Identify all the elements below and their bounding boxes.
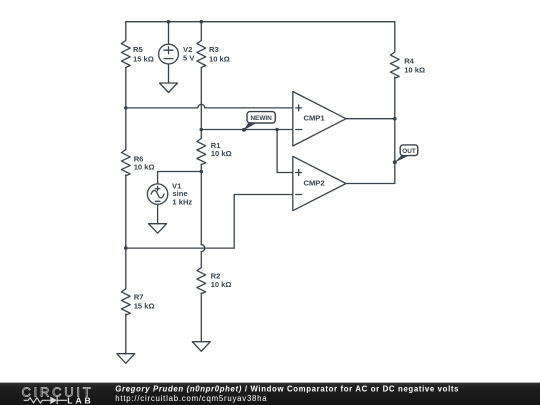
node OUT flag <box>393 145 418 164</box>
junction V1 R1 <box>200 170 204 174</box>
ground G1 under V2 <box>160 83 178 93</box>
svg-text:10 kΩ: 10 kΩ <box>209 54 230 63</box>
op-amp CMP1 <box>293 92 346 147</box>
svg-text:15 kΩ: 15 kΩ <box>134 302 155 311</box>
wire left rail upper <box>125 22 127 41</box>
svg-text:1 kHz: 1 kHz <box>172 197 192 206</box>
junction left rail noninverting <box>124 106 128 110</box>
svg-text:15 kΩ: 15 kΩ <box>133 54 154 63</box>
svg-text:R5: R5 <box>133 45 143 54</box>
voltage source V2 <box>159 44 179 64</box>
wire inverting input CMP1 <box>201 129 292 131</box>
wire V2 bottom lead <box>168 64 170 83</box>
footer text <box>115 384 459 403</box>
junction middle rail inverting <box>200 128 204 132</box>
junction R3 top <box>200 20 204 24</box>
wire left rail mid2 <box>125 175 127 288</box>
svg-text:10 kΩ: 10 kΩ <box>211 149 232 158</box>
op-amp CMP2 <box>293 156 346 210</box>
node NEWIN flag <box>242 112 275 132</box>
footer bar <box>0 383 540 405</box>
svg-text:R4: R4 <box>404 57 414 66</box>
svg-text:5 V: 5 V <box>183 54 195 63</box>
svg-text:LAB: LAB <box>67 396 93 405</box>
ground G4 under R7 <box>117 354 135 364</box>
wire hop over bottom wire <box>201 245 205 252</box>
svg-text:10 kΩ: 10 kΩ <box>404 65 425 74</box>
wire V2 top lead <box>168 22 170 45</box>
wire middle rail R3 to R1 <box>200 68 202 139</box>
wire CMP2 inverting to bottom <box>234 195 293 249</box>
wire left rail mid1 <box>125 68 127 150</box>
wire hop to R2 <box>200 252 202 268</box>
svg-text:http://circuitlab.com/cqm5ruya: http://circuitlab.com/cqm5ruyav38ha <box>115 394 267 403</box>
resistor R6 <box>121 150 130 176</box>
svg-text:10 kΩ: 10 kΩ <box>134 163 155 172</box>
svg-text:CMP2: CMP2 <box>304 178 325 187</box>
resistor R7 <box>121 289 130 315</box>
wire noninverting input CMP1 with hop <box>126 104 293 107</box>
resistor R1 <box>197 138 206 164</box>
logo CircuitLab <box>22 384 94 405</box>
svg-text:10 kΩ: 10 kΩ <box>211 280 232 289</box>
wire V1 top lead <box>158 172 202 185</box>
wire top rail <box>126 21 395 23</box>
wire right rail R4 to output <box>394 77 396 119</box>
junction branch CMP2 <box>275 128 279 132</box>
resistor R5 <box>121 41 130 68</box>
svg-text:Gregory Pruden (n0npr0phet) /: Gregory Pruden (n0npr0phet) / Window Com… <box>115 384 459 393</box>
svg-text:OUT: OUT <box>402 148 416 155</box>
wire bottom rail <box>126 247 234 249</box>
wire CMP2 output <box>346 119 395 184</box>
svg-text:R3: R3 <box>209 45 219 54</box>
wire branch to CMP2 noninverting <box>277 130 293 173</box>
wire V1 bottom lead <box>157 204 159 223</box>
junction V2 top <box>167 20 171 24</box>
wire right rail upper <box>394 22 396 52</box>
junction CMP1 output <box>393 117 397 121</box>
wire middle rail upper <box>200 22 202 41</box>
resistor R4 <box>390 52 399 78</box>
svg-text:R7: R7 <box>134 293 144 302</box>
resistor R2 <box>197 268 206 294</box>
resistor R3 <box>197 41 206 68</box>
wire R2 to ground <box>200 293 202 342</box>
svg-text:NEWIN: NEWIN <box>250 115 272 122</box>
ground G2 under V1 <box>149 224 167 234</box>
junction left rail bottom <box>124 246 128 250</box>
wire CMP1 output <box>346 118 395 120</box>
ground G3 under R2 <box>192 342 210 352</box>
wire middle rail R1 to hop <box>200 164 202 244</box>
wire left rail lower <box>125 314 127 354</box>
voltage source V1 sine <box>147 184 167 204</box>
svg-text:CMP1: CMP1 <box>304 114 326 123</box>
